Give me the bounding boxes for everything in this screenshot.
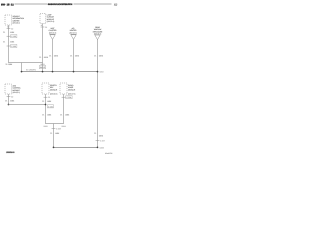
connector tick middle drop — [52, 128, 61, 131]
connector C100 tick with boxed label — [7, 35, 17, 39]
wire from triangle 2 to bus — [73, 39, 75, 71]
wire splice to bus — [42, 63, 44, 72]
tee joining module A and B wires — [46, 123, 64, 125]
label: module A text — [50, 84, 58, 96]
svg-text:Z1: Z1 — [50, 132, 52, 135]
svg-text:(8W-42-2): (8W-42-2) — [69, 31, 77, 34]
wire: horizontal run to splice — [9, 62, 43, 64]
wire label Z1 18BK col1 — [49, 55, 59, 58]
svg-text:4: 4 — [41, 24, 42, 27]
svg-text:C 107: C 107 — [100, 139, 105, 142]
triangle from rear window defogger — [93, 26, 103, 40]
svg-text:Z1: Z1 — [94, 132, 96, 135]
svg-text:(8W-35-2): (8W-35-2) — [13, 91, 21, 94]
svg-text:Z1: Z1 — [3, 31, 5, 34]
svg-text:C 126: C 126 — [48, 105, 53, 108]
component box: sentry key module (dashed) — [42, 83, 49, 94]
svg-text:(8W-51-6): (8W-51-6) — [47, 20, 55, 23]
svg-text:J988W-5: J988W-5 — [6, 151, 15, 154]
component box: vehicle information center (dashed) — [5, 15, 12, 25]
label: lamp outage module text — [47, 14, 55, 24]
svg-text:Z1: Z1 — [42, 113, 44, 116]
connector tick module B — [62, 96, 73, 100]
svg-text:(8W-39-2): (8W-39-2) — [50, 93, 58, 96]
header rule right — [74, 3, 112, 5]
junction dot left end — [21, 71, 23, 73]
header rule left — [15, 3, 48, 5]
connector tick right col lower — [96, 139, 105, 142]
svg-text:(8W-47-2): (8W-47-2) — [68, 93, 76, 96]
wire label Z1 18BK col2 — [70, 55, 80, 58]
svg-text:(8W-40-2): (8W-40-2) — [49, 31, 57, 34]
junction dot lower-left — [8, 104, 10, 106]
label: ABS control module text — [13, 84, 21, 94]
wire label Z1 20BK lower-left — [5, 99, 15, 102]
triangle from a/c heater control — [69, 27, 77, 39]
wire middle drop from tee — [53, 124, 55, 148]
wire label Z1 18BK module A — [42, 100, 52, 103]
wire from lamp outage module down — [42, 24, 44, 63]
connector C2 tick — [7, 28, 14, 31]
header page number 8W-15-12 — [1, 3, 14, 6]
splice S201 boxed label — [39, 66, 46, 69]
connector tick module A — [44, 96, 51, 99]
wire from triangle 1 to bus — [52, 39, 54, 71]
svg-text:C1: C1 — [48, 96, 50, 99]
svg-text:XJ: XJ — [114, 3, 118, 6]
svg-text:C 304: C 304 — [67, 96, 72, 99]
ground bus (mid) — [22, 71, 98, 73]
svg-text:Z1: Z1 — [39, 56, 41, 59]
junction dot bottom right — [97, 147, 99, 149]
wire from VIC down — [8, 25, 10, 63]
wire from module B down — [63, 94, 65, 124]
wire from module A down — [45, 94, 47, 124]
wire label Z1 18BK col3 — [94, 55, 104, 58]
junction dot col3 — [97, 71, 99, 73]
svg-text:Z1: Z1 — [49, 55, 51, 58]
svg-text:C 100: C 100 — [11, 35, 16, 38]
triangle from instrument cluster — [49, 27, 58, 39]
svg-text:(8W-46-2): (8W-46-2) — [13, 22, 21, 25]
svg-text:Z1: Z1 — [5, 99, 7, 102]
junction dot bottom left — [53, 147, 55, 149]
svg-text:C2: C2 — [11, 96, 13, 99]
svg-text:C2: C2 — [11, 28, 13, 31]
svg-text:C1: C1 — [45, 26, 47, 29]
connector C1 tick — [41, 26, 48, 29]
component box: ABS control module (dashed) — [5, 84, 12, 94]
svg-text:Z1 20BK: Z1 20BK — [6, 63, 14, 66]
wire from triangle 3 down through bus — [97, 40, 99, 148]
svg-text:Z1: Z1 — [94, 55, 96, 58]
svg-text:10: 10 — [7, 26, 9, 29]
svg-text:G300: G300 — [100, 146, 104, 149]
wire label Z1 18BK middle drop — [50, 132, 60, 135]
svg-text:MODULE: MODULE — [68, 88, 76, 91]
junction dot module A on horizontal — [45, 104, 47, 106]
component box: radio (dashed) — [60, 83, 67, 94]
svg-text:Z1: Z1 — [3, 41, 5, 44]
connector C200 tick with boxed label — [7, 44, 17, 48]
junction dot col2 — [73, 71, 75, 73]
wire label Z1 18BK module A lower — [42, 113, 52, 116]
svg-text:C 200: C 200 — [11, 45, 16, 48]
component box: lamp outage module (dashed) — [40, 14, 46, 24]
header model code XJ — [114, 3, 118, 6]
wire label Z1 20BK (second) — [3, 41, 15, 44]
wire label Z1 18BK module B — [60, 113, 70, 116]
wire label Z1 18BK right col lower — [94, 132, 104, 138]
junction dot splice — [42, 71, 44, 73]
svg-text:8W-15 GROUND DISTRIBUTION: 8W-15 GROUND DISTRIBUTION — [48, 3, 73, 6]
wire label Z1 20BK — [39, 56, 49, 59]
junction dot col1 — [52, 71, 54, 73]
svg-text:Z1: Z1 — [70, 55, 72, 58]
svg-text:C 105: C 105 — [56, 128, 61, 131]
svg-text:80a8e796: 80a8e796 — [105, 152, 112, 155]
svg-text:MODULE: MODULE — [50, 88, 58, 91]
label: module B text — [68, 84, 76, 96]
svg-text:Z1: Z1 — [42, 100, 44, 103]
header title 8W-15 GROUND DISTRIBUTION — [48, 3, 73, 6]
svg-text:S204: S204 — [61, 125, 65, 128]
connector tick C2 lower — [7, 96, 14, 99]
svg-text:S202: S202 — [100, 71, 104, 74]
connector boxed label right of junction — [47, 105, 53, 109]
label: vehicle information center text — [13, 15, 25, 25]
wire drop from horizontal to ground bus — [21, 63, 23, 72]
wire: lower horizontal run — [9, 104, 46, 106]
svg-text:Z1: Z1 — [60, 113, 62, 116]
svg-text:S203: S203 — [43, 125, 47, 128]
ground bus (bottom) — [54, 146, 98, 148]
wire from ABS module down — [8, 94, 10, 105]
wire label Z1 20BK — [3, 31, 15, 34]
